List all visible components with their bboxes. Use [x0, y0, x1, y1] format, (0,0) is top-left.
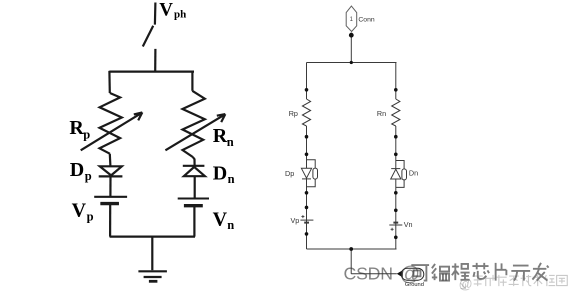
ground connector arrow	[397, 270, 403, 277]
ground thick bottom line	[149, 280, 158, 283]
wire Rp to Dp	[109, 154, 112, 166]
svg-text:R: R	[213, 125, 228, 147]
svg-text:R: R	[69, 117, 84, 139]
svg-text:ph: ph	[174, 9, 186, 21]
wire top bus	[109, 70, 194, 72]
battery Vn long plate	[389, 224, 402, 226]
diode Dp	[301, 168, 311, 178]
resistor Rn	[392, 99, 400, 126]
resistor Rp arrow	[81, 112, 143, 150]
pin dot Rp top	[305, 88, 309, 92]
wire top bus	[307, 62, 397, 64]
svg-text:Dp: Dp	[285, 169, 294, 178]
svg-text:p: p	[83, 128, 90, 142]
pin dot Vn top	[394, 209, 398, 213]
svg-text:n: n	[228, 172, 235, 186]
battery Vn	[178, 197, 209, 199]
wire ground stem	[151, 237, 153, 271]
wire Vp to bottom bus	[109, 204, 111, 237]
svg-text:p: p	[85, 169, 92, 183]
wire left column lower	[306, 126, 308, 249]
switch SW blade	[143, 26, 153, 47]
svg-text:V: V	[72, 199, 87, 221]
svg-text:1: 1	[350, 17, 354, 23]
svg-text:Vn: Vn	[404, 220, 413, 229]
battery Vn plus	[391, 228, 394, 231]
svg-text:n: n	[227, 135, 234, 149]
wire top feed	[154, 3, 157, 25]
wire to ground connector	[351, 273, 397, 275]
wire Rn to Dn	[193, 157, 195, 166]
svg-text:@: @	[400, 264, 420, 286]
battery Vp long plate	[300, 219, 313, 221]
svg-text:V: V	[213, 209, 228, 231]
pin dot Dn top	[394, 153, 398, 157]
svg-text:CSDN: CSDN	[344, 264, 393, 284]
diode Dn	[183, 166, 205, 176]
wire ground stem	[350, 249, 352, 274]
svg-text:Vp: Vp	[291, 216, 300, 225]
resistor Rn arrow	[165, 114, 225, 150]
wire right drop	[191, 71, 193, 91]
diode Dp cathode bar	[302, 178, 311, 180]
svg-text:D: D	[213, 162, 227, 184]
battery Vn thick plate	[184, 204, 203, 207]
wire left drop	[108, 71, 111, 93]
connector Conn pin 1 hexagon	[346, 6, 357, 31]
battery Vp	[94, 197, 127, 204]
diode Dn	[391, 169, 401, 179]
wire bottom bus	[110, 236, 195, 238]
diode Dn parallel box	[396, 161, 404, 188]
svg-text:p: p	[87, 210, 94, 224]
pin dot Vp bottom	[305, 232, 309, 236]
wire bottom bus	[307, 248, 397, 250]
pin dot Rp bottom	[305, 135, 309, 139]
resistor Rp zigzag	[100, 93, 122, 154]
wire connector to top bus	[350, 33, 352, 63]
watermark faint arrow	[461, 283, 466, 289]
wire Dp to Vp	[109, 176, 111, 196]
diode Dp shunt capsule	[313, 168, 318, 179]
ground connector capsule	[401, 268, 424, 280]
pin dot Vp top	[305, 206, 309, 210]
diode Dn shunt capsule	[402, 169, 407, 180]
pin dot Vn bottom	[394, 236, 398, 240]
diode Dp	[99, 166, 123, 176]
wire right column lower	[395, 126, 397, 249]
battery Vn short plate	[393, 222, 398, 224]
pin dot Rn top	[394, 88, 398, 92]
junction dot bottom bus	[349, 247, 353, 251]
wire Dn to Vn	[194, 176, 196, 198]
watermark faint community glyphs	[473, 275, 568, 286]
junction dot top bus	[350, 61, 353, 64]
wire left column upper	[306, 63, 308, 100]
pin dot Rn bottom	[394, 135, 398, 139]
wire Vn to bottom bus	[193, 206, 195, 237]
watermark username glyphs	[411, 263, 548, 281]
wire right column upper	[395, 63, 397, 100]
battery Vp plus	[301, 215, 304, 218]
diode Dn cathode bar	[391, 168, 400, 170]
wire switch to bus	[154, 49, 156, 72]
svg-text:Dn: Dn	[409, 169, 418, 178]
diode Dp parallel box	[307, 160, 316, 187]
resistor Rn zigzag	[183, 91, 205, 157]
svg-text:Rp: Rp	[289, 109, 298, 118]
battery Vp thick plate	[100, 202, 119, 205]
pin dot Dp top	[305, 153, 309, 157]
svg-text:n: n	[227, 218, 234, 232]
pin dot Dp bottom	[305, 191, 309, 195]
svg-text:Conn: Conn	[358, 17, 374, 24]
svg-text:Rn: Rn	[377, 109, 386, 118]
junction dot at connector	[349, 33, 354, 38]
battery Vp short plate	[304, 222, 309, 224]
svg-text:V: V	[159, 0, 173, 21]
resistor Rp	[302, 99, 310, 126]
svg-text:D: D	[70, 159, 84, 181]
pin dot Dn bottom	[394, 191, 398, 195]
ground	[138, 271, 167, 277]
